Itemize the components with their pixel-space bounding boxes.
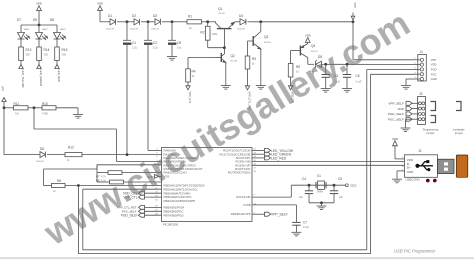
net flag VPP (rail) [351,3,356,21]
diode D2 [130,14,148,30]
resistor R4 [186,58,196,83]
svg-text:BC547: BC547 [219,13,226,15]
svg-text:bootloade: bootloade [453,128,465,132]
svg-text:RB4/AN11/KBI0/CSSPP: RB4/AN11/KBI0/CSSPP [164,199,196,203]
svg-text:0.1uF: 0.1uF [356,80,363,83]
IC pin label RB1/AN10/INT1/SCK/SCL [155,187,198,191]
LED D8 [50,18,66,47]
IC pin label RA6/OSC2/CLKO [155,171,187,175]
IC pin label RB6/KBI2/PGC [155,209,184,213]
svg-text:D2: D2 [132,14,136,18]
resistor R15 [55,47,68,61]
svg-text:470K: 470K [42,112,48,116]
svg-text:330: 330 [62,52,67,56]
capacitor C6 [343,64,362,83]
svg-text:LED2: LED2 [42,29,48,31]
node VPP tap [352,20,355,23]
net flag PGC_SELF (J3) [388,117,412,121]
node C6 tap [346,63,349,66]
USB plug shell [438,159,455,173]
svg-text:VDD: VDD [392,137,399,141]
svg-text:VPP: VPP [1,86,4,91]
svg-text:PGC_SELF: PGC_SELF [388,117,404,121]
svg-text:PIC18F2550: PIC18F2550 [163,223,179,227]
net flag LED_RED [252,156,287,160]
terminal VDD_CTL (R5) [288,77,294,104]
svg-text:R1: R1 [188,15,192,19]
svg-text:D1: D1 [108,14,112,18]
node LED rail junction [38,24,41,27]
terminal VPP_CTL (R4) [186,82,192,104]
node C5 tap [333,184,336,187]
resistor R1 [187,15,216,30]
svg-text:J3: J3 [419,92,423,96]
ground (C6) [342,77,352,92]
svg-text:100k: 100k [212,32,218,36]
crystal X1 [316,174,326,194]
net flag VDD_CTL [123,191,162,195]
svg-text:C1: C1 [132,41,136,45]
svg-text:R14: R14 [44,48,50,52]
svg-text:GND: GND [407,170,415,174]
capacitor C7 [292,221,309,229]
transistor Q3 [248,22,272,86]
IC pin label RA3/AN3/VREF+ [156,160,186,164]
label bootloader jumper [453,128,465,135]
svg-text:VDD: VDD [431,63,437,67]
capacitor C3 [322,64,341,83]
svg-text:LED_RED: LED_RED [57,70,61,82]
wire VPP to J1 pin1 [353,22,414,60]
wire J3 ground [406,119,413,128]
svg-text:1N4148: 1N4148 [237,28,245,30]
jumper bracket 1 [431,102,436,111]
svg-text:LED1: LED1 [24,29,30,31]
capacitor C5 [330,177,344,199]
IC pin label RC5/D+/VP [235,163,256,167]
terminal LED_RED [55,61,61,82]
svg-text:BC548: BC548 [264,42,271,44]
svg-text:D+: D+ [407,166,411,170]
terminal LED_YELLOW [19,61,25,88]
terminal LED_GREEN [37,61,43,86]
svg-text:R12: R12 [68,146,74,150]
IC pin label VSS [156,175,169,179]
svg-text:Q4: Q4 [311,44,315,48]
IC pin label RB2/AN8/INT2/VMO [155,191,191,195]
svg-text:Q3: Q3 [264,35,268,39]
node Q3 collector [259,20,262,23]
IC pin label RA0/AN0 [156,149,176,153]
capacitor C8 [168,22,182,50]
svg-text:330: 330 [26,52,31,56]
ground (J2) [392,179,402,183]
terminal VPP_CTL_RST (R3) [245,69,251,111]
svg-text:X1: X1 [317,174,321,178]
svg-text:2.2u: 2.2u [153,46,159,50]
svg-text:LED3: LED3 [60,29,66,31]
svg-text:LED_GREEN: LED_GREEN [39,70,43,86]
svg-text:0.1uF: 0.1uF [303,226,310,229]
svg-text:R2: R2 [200,31,204,35]
svg-text:D7: D7 [17,18,21,22]
ground (crystal) [317,203,327,210]
ground (Q3 emitter) [256,86,266,90]
wire J2 GND [397,171,405,179]
svg-text:OSC/CLKIN: OSC/CLKIN [236,195,251,199]
resistor R10 [42,102,56,116]
svg-text:10u: 10u [177,46,182,50]
node R11 left [3,106,6,109]
wire R2 to Q2 node [208,40,225,48]
resistor R12 [65,146,127,162]
resistor R5 [288,64,300,78]
label Programming jumper [423,128,439,135]
transistor Q4 [291,44,319,65]
net flag VPP_SELF (J3) [388,101,412,105]
node R6 output junction [77,184,80,187]
diode D3 [151,14,172,30]
transistor Q1 [215,7,240,48]
wire USB D- [252,161,405,163]
net flag PGD_SELF [121,213,162,217]
wire VDD rail to J1 [326,63,414,65]
svg-text:R13: R13 [26,48,32,52]
wire W1 to IC pin RA4 [44,165,162,186]
wire USB D+ [252,164,405,166]
svg-text:Q1: Q1 [218,7,222,11]
svg-text:1N4148: 1N4148 [151,28,159,30]
svg-text:VPP_CTL: VPP_CTL [188,92,192,104]
IC pin label RB7/KBI3/PGD [155,213,183,217]
svg-text:22p: 22p [299,196,304,199]
USB trident icon [415,160,433,171]
svg-text:jumper: jumper [454,131,463,135]
IC pin label RC2/CCP1 [236,156,257,160]
IC pin label RA2/AN2/VREF-/CVREF [156,156,196,160]
svg-text:VPP: VPP [353,3,356,8]
ground (J3) [401,128,411,132]
net flag VPP_CTL_RST [117,205,162,209]
ground (J1) [401,86,411,90]
IC pin label RB3/AN9/CCP2/VPO [155,195,192,199]
resistor R13 [19,47,32,61]
wire PGC loop [78,74,414,253]
svg-text:330: 330 [44,52,49,56]
svg-text:PGD_SELF: PGD_SELF [121,214,138,218]
svg-text:RE3/MCLR/VPP: RE3/MCLR/VPP [231,212,251,216]
capacitor C4 [299,177,313,199]
svg-text:C8: C8 [177,41,181,45]
ground (C3) [321,77,331,92]
net flag PGD_SELF (J3) [388,112,412,116]
svg-text:C7: C7 [303,221,307,225]
resistor R2 [200,20,218,40]
svg-text:VUSB: VUSB [243,203,251,207]
net flag VPP_SELF (MCLR) [252,212,288,216]
IC pin label RC4/D-/VM [235,160,256,164]
net flag LED_GREEN [252,152,292,156]
node R11/R10 junction [28,106,42,109]
svg-text:1N4148: 1N4148 [130,28,138,30]
svg-text:J2: J2 [418,149,422,153]
svg-text:1N4148: 1N4148 [36,161,44,163]
power VDD (USB) [392,137,405,159]
resistor R6 [44,179,162,193]
LED D7 [17,18,30,47]
IC pin label VUSB [243,203,256,207]
IC pin label RA1/AN1 [156,152,176,156]
IC pin label RA4/T0CKI/C1OUT/RCV [156,163,196,167]
wire VPP rail [253,21,354,23]
net flag PGC_SELF [122,209,162,213]
resistor R3 [245,56,256,69]
svg-text:D9: D9 [33,18,37,22]
IC pin label RC1/T1OSI/CCP2/UOE [219,152,256,156]
resistor R8 [96,178,162,184]
svg-text:BC548: BC548 [231,61,238,63]
wire OSC1 to crystal [252,185,346,197]
ground (C7) [291,225,301,236]
svg-text:VPP: VPP [431,58,437,62]
wire PGD loop [83,70,414,250]
svg-text:R3: R3 [252,57,256,61]
diode D1 [106,14,127,30]
wire LED rail [21,24,57,26]
wire R10 to ground [56,108,78,115]
svg-text:D3: D3 [153,14,157,18]
wire C2 to IC pin RA0 [148,44,162,150]
terminal VPP sense (left) [1,86,7,155]
svg-text:Q2: Q2 [231,54,235,58]
svg-text:USBCONN: USBCONN [406,177,420,181]
watermark www.circuitsgallery.com [36,2,416,253]
capacitor C2 [144,22,159,50]
node C4 tap [308,184,311,187]
power VDD (Q4) [305,33,311,43]
svg-text:LED_RED: LED_RED [271,156,287,160]
resistor R14 [37,47,50,61]
svg-text:8MHz: 8MHz [317,191,324,194]
svg-text:PGD: PGD [431,68,437,72]
IC pin label RC6/TX/CK [235,167,256,171]
node C2 tap [147,20,155,23]
node R12 / C1 junction [126,153,129,156]
connector J3 [412,92,426,124]
svg-text:PGD_SELF: PGD_SELF [388,112,404,116]
resistor R11 [4,102,28,116]
svg-text:2.2u: 2.2u [132,46,138,50]
svg-text:VPP_SELF: VPP_SELF [271,213,288,217]
IC pin label RE3/MCLR/VPP [231,212,256,216]
jumper bracket 3 [456,102,461,111]
wire VUSB to C7 [252,205,296,223]
wire J1 GND [406,79,414,86]
svg-text:GND: GND [431,77,437,81]
ground (R10) [73,115,83,119]
svg-text:D6: D6 [40,147,44,151]
svg-text:Programming: Programming [423,128,439,132]
IC pin label RC7/RX/DT/SDO [228,171,257,175]
svg-text:RC7/RX/DT/SDO: RC7/RX/DT/SDO [228,171,251,175]
IC pin label RA5/AN4/SS/HLVDIN/C2OUT [156,167,202,171]
svg-text:VPP_SELF: VPP_SELF [388,102,404,106]
IC pin label RB0/AN12/INT0/FLT0/SDI/SDA [155,184,204,188]
net flag VPP_CTL [123,195,161,199]
wire junction to IC pin RA3 [34,108,162,162]
diode D4 [237,14,253,30]
diode D6 [4,147,65,163]
net flag LED_YELLOW [252,148,294,152]
transistor Q2 [188,48,238,86]
jumper bracket 2 [431,116,436,123]
svg-text:J1: J1 [420,50,424,54]
USB plug body (orange) [456,155,468,177]
svg-text:OSC2: OSC2 [350,184,357,187]
connector J1 [414,50,437,81]
LED D9 [33,18,48,47]
IC pin label RB5/KBI1/PGM [155,206,184,210]
node C1 tap [126,20,134,23]
wire crystal ground bus [309,194,334,205]
node C8 tap [171,20,187,23]
svg-text:VDD: VDD [397,107,404,111]
IC U1 PIC18F2550 body [162,148,253,227]
zener diode D5 [308,55,326,73]
ground (C8) [167,44,177,60]
IC pin label OSC1/CLKIN [236,194,256,199]
ground (Q2 emitter) [221,86,231,90]
svg-text:1M: 1M [15,112,19,116]
svg-text:C2: C2 [153,41,157,45]
svg-text:R15: R15 [62,48,68,52]
ground flag (VSS pin) [147,174,161,178]
polarity dot 1 [426,179,430,183]
IC pin label RC0/T1OSO/T13CKI [223,149,256,153]
connector J2 USB body [402,149,438,181]
capacitor C1 [123,22,138,50]
svg-text:C4: C4 [302,177,306,181]
polarity dot 2 [433,179,437,183]
resistor R7 [96,165,162,182]
svg-text:RB7/KBI3/PGD: RB7/KBI3/PGD [164,213,184,217]
svg-text:R4: R4 [192,70,196,74]
net flag OSC2 [345,184,357,188]
svg-text:1N4148: 1N4148 [106,28,114,30]
net flag VDD (J3) [397,107,412,111]
svg-text:D8: D8 [50,18,54,22]
IC pin label RB4/AN11/KBI0/CSSPP [155,199,195,203]
svg-text:jumper: jumper [426,131,435,135]
wire C1 to IC pin RA1 [127,44,162,154]
svg-text:R6: R6 [57,179,61,183]
svg-text:PGC: PGC [431,72,437,76]
power VDD (LED block) [36,2,42,25]
svg-text:LED_YELLOW: LED_YELLOW [21,70,25,88]
svg-text:22p: 22p [339,196,344,199]
node Q1 base / Q2 [223,46,226,49]
caption USB PIC Programmer [394,248,436,253]
svg-text:D4: D4 [239,14,243,18]
svg-text:USB PIC Programmer: USB PIC Programmer [394,248,436,253]
node C3 tap [324,63,327,66]
svg-text:C6: C6 [356,74,360,78]
power VDD (main rail) [97,2,110,22]
svg-text:C5: C5 [338,177,342,181]
border bottom edge [0,257,474,259]
